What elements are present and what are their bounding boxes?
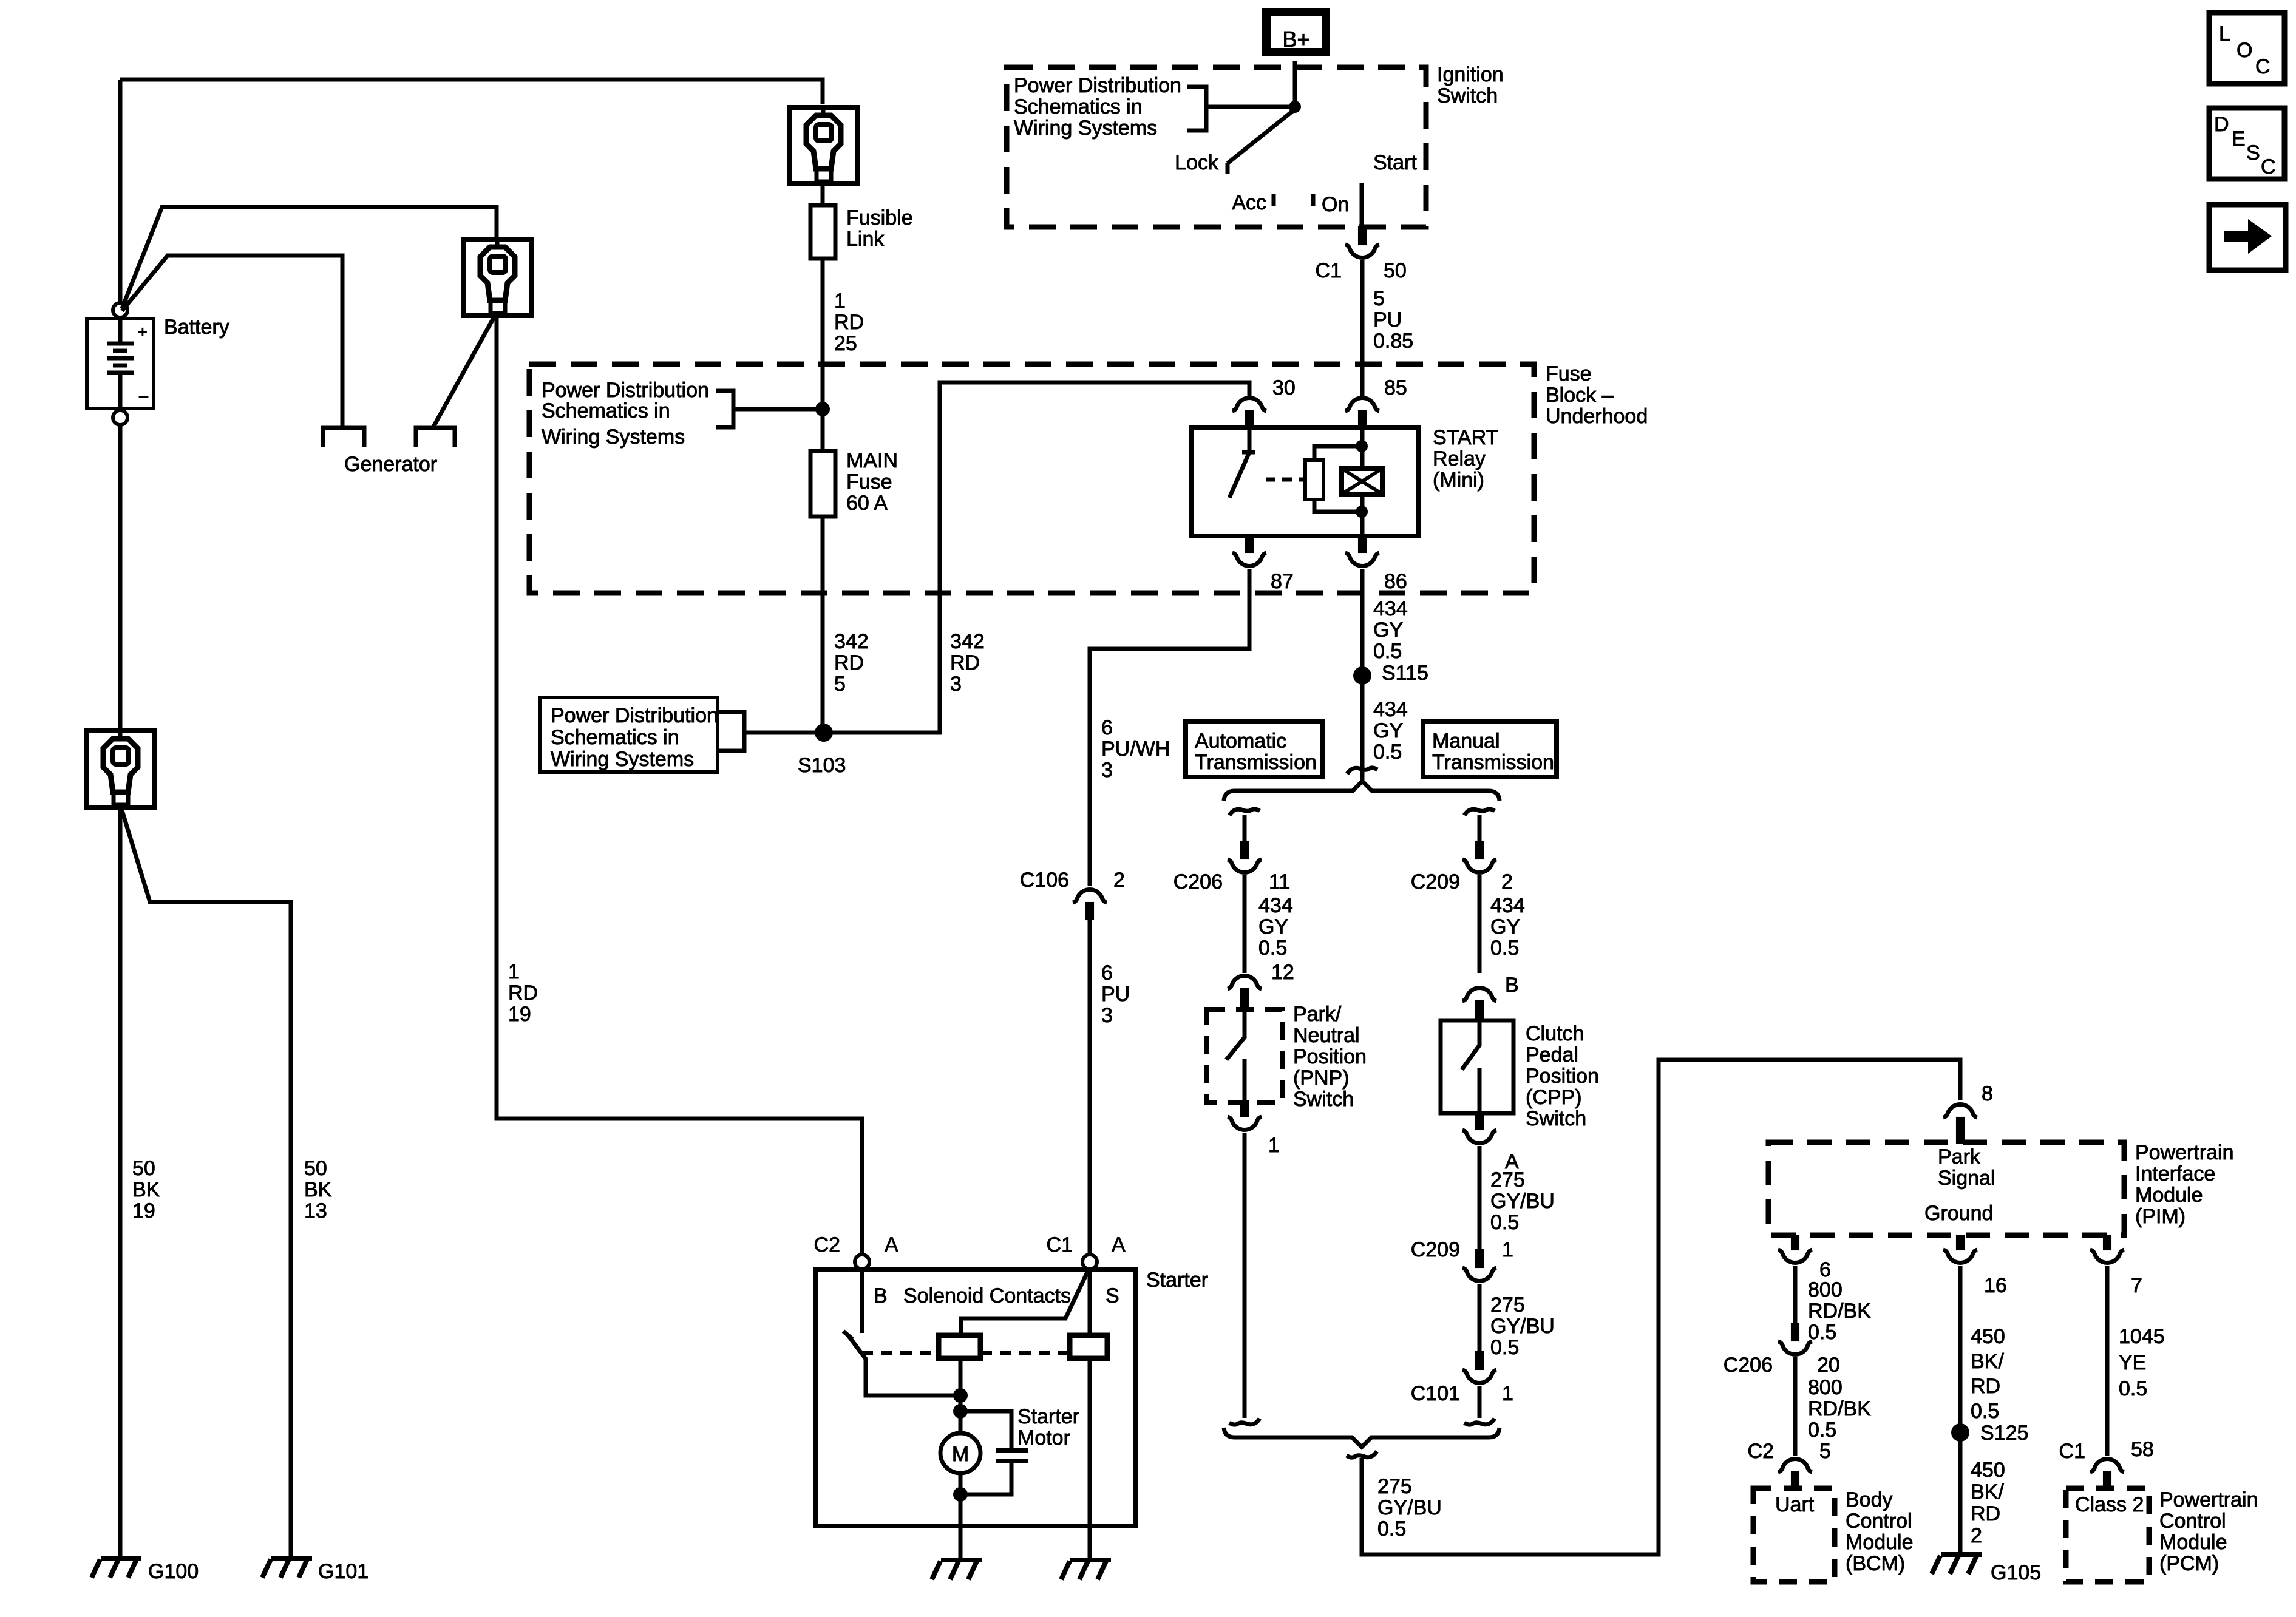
svg-text:0.5: 0.5 <box>1971 1400 1999 1423</box>
svg-text:0.5: 0.5 <box>1373 640 1402 663</box>
svg-text:Transmission: Transmission <box>1432 751 1554 774</box>
svg-text:Switch: Switch <box>1293 1088 1354 1111</box>
reference box Automatic Transmission <box>1186 722 1323 777</box>
ground starter motor <box>932 1560 982 1579</box>
svg-text:S125: S125 <box>1980 1422 2028 1445</box>
svg-text:(PCM): (PCM) <box>2159 1552 2219 1575</box>
svg-text:12: 12 <box>1271 961 1294 984</box>
svg-text:GY: GY <box>1373 619 1403 642</box>
svg-text:Battery: Battery <box>164 316 229 339</box>
svg-text:Powertrain: Powertrain <box>2135 1141 2234 1164</box>
wire PIM 7 to PCM (1045 YE 0.5) <box>2105 1266 2110 1456</box>
fuse F1 Fusible Link <box>810 205 835 259</box>
ignition switch blade to Lock <box>1228 109 1295 163</box>
svg-text:Fuse: Fuse <box>846 470 892 493</box>
connector C206 pin 12 (socket) <box>1228 976 1262 989</box>
svg-text:85: 85 <box>1384 376 1407 399</box>
svg-text:50: 50 <box>132 1157 155 1180</box>
svg-text:G100: G100 <box>148 1560 199 1583</box>
svg-text:Interface: Interface <box>2135 1162 2215 1185</box>
connector C206 pin 20 (socket) <box>1778 1341 1812 1354</box>
PNP switch blade <box>1226 1010 1245 1060</box>
PIM pin 16 (pin) <box>1956 1235 1965 1250</box>
junction dot starter node 3 <box>953 1487 968 1502</box>
svg-text:(PIM): (PIM) <box>2135 1205 2186 1228</box>
svg-text:3: 3 <box>950 673 962 696</box>
svg-text:19: 19 <box>508 1003 531 1026</box>
PNP switch lower contact <box>1243 1059 1247 1100</box>
svg-text:Wiring Systems: Wiring Systems <box>1014 117 1157 140</box>
wire contact block to motor <box>959 1358 963 1433</box>
svg-text:5: 5 <box>1373 287 1385 310</box>
splice S115 <box>1353 666 1371 685</box>
svg-text:Lock: Lock <box>1175 151 1219 174</box>
generator left terminal <box>323 428 364 447</box>
BCM dashed box <box>1753 1488 1835 1582</box>
svg-text:–: – <box>139 387 148 405</box>
wire S103 to START relay pin 30 (342 RD 3) <box>832 382 1249 733</box>
svg-text:Block –: Block – <box>1546 384 1614 407</box>
svg-text:A: A <box>1112 1233 1126 1256</box>
ignition Start contact wire <box>1360 183 1364 226</box>
connector C206 pin 11 (socket) <box>1228 859 1262 872</box>
svg-text:C101: C101 <box>1411 1382 1460 1405</box>
svg-text:GY: GY <box>1258 915 1288 938</box>
svg-text:Starter: Starter <box>1146 1269 1208 1292</box>
connector C1 ignition pin 50 (socket) <box>1345 245 1379 257</box>
relay resistor top link <box>1314 446 1362 460</box>
svg-text:5: 5 <box>1819 1440 1831 1463</box>
svg-text:0.5: 0.5 <box>1258 937 1287 960</box>
svg-text:GY/BU: GY/BU <box>1490 1190 1555 1213</box>
wire C101-1 to merge brace <box>1478 1386 1482 1418</box>
wire ring terminal to G100 (50 BK 19) <box>118 807 123 1557</box>
fuse block underhood dashed box <box>529 364 1534 593</box>
svg-text:1: 1 <box>1502 1238 1513 1261</box>
ground G100 <box>92 1558 141 1578</box>
wire starter motor case ground <box>959 1526 963 1559</box>
relay pin 87 connector (socket) <box>1232 553 1266 566</box>
PNP switch dashed box <box>1207 1009 1282 1102</box>
junction dot relay coil top <box>1356 440 1368 452</box>
svg-text:Ignition: Ignition <box>1437 63 1504 86</box>
svg-text:Module: Module <box>1846 1531 1914 1554</box>
svg-text:C206: C206 <box>1173 870 1223 893</box>
svg-text:1: 1 <box>834 290 846 313</box>
svg-text:1: 1 <box>508 960 520 983</box>
wire PIM 16 to S125 (450 BK/RD 0.5) <box>1958 1266 1963 1432</box>
svg-text:Switch: Switch <box>1526 1107 1586 1130</box>
ring terminal generator feed <box>463 239 532 316</box>
svg-text:60 A: 60 A <box>846 492 888 515</box>
svg-text:0.5: 0.5 <box>1377 1517 1406 1541</box>
svg-text:1: 1 <box>1502 1382 1513 1405</box>
svg-text:Control: Control <box>2159 1510 2226 1533</box>
PIM pin 7 (pin) <box>2103 1235 2111 1250</box>
svg-text:C2: C2 <box>814 1233 840 1256</box>
PIM pin 7 (socket) <box>2090 1250 2124 1263</box>
svg-text:C206: C206 <box>1724 1354 1773 1377</box>
starter capacitor bottom lead <box>960 1461 1011 1494</box>
svg-text:2: 2 <box>1971 1524 1982 1547</box>
svg-text:Uart: Uart <box>1775 1493 1815 1516</box>
connector C106 pin 2 (pin) <box>1085 902 1094 920</box>
svg-text:Manual: Manual <box>1432 730 1500 753</box>
svg-text:275: 275 <box>1377 1475 1412 1498</box>
svg-text:(BCM): (BCM) <box>1846 1552 1905 1575</box>
connector C106 pin 2 (socket) <box>1073 890 1107 903</box>
svg-text:25: 25 <box>834 332 857 355</box>
connector C209 pin 2 (socket) <box>1462 859 1496 872</box>
ring terminal fusible link feed <box>789 107 858 184</box>
connector C209 pin B (socket) <box>1462 988 1496 1001</box>
starter terminal C1 A <box>1082 1255 1097 1269</box>
svg-text:Wiring Systems: Wiring Systems <box>551 748 694 771</box>
battery positive terminal <box>113 303 127 317</box>
svg-text:Automatic: Automatic <box>1195 730 1286 753</box>
svg-text:8: 8 <box>1982 1082 1993 1105</box>
wire CPP A to C209-1 (275 GY/BU 0.5) <box>1478 1146 1482 1249</box>
wire ring terminal to generator right terminal <box>433 317 494 427</box>
power feed B+ box <box>1266 12 1326 52</box>
wire PNP pin 1 to merge brace <box>1243 1133 1247 1418</box>
tick On position <box>1311 194 1316 206</box>
ground G101 <box>262 1558 312 1578</box>
connector C209 pin 2 (pin) <box>1475 841 1484 859</box>
CPP switch blade <box>1462 1022 1479 1070</box>
wire to C206 pin 11 <box>1243 815 1247 841</box>
CPP switch lower contact <box>1478 1068 1482 1113</box>
svg-text:0.85: 0.85 <box>1373 330 1413 353</box>
solenoid actuator dashed line right <box>980 1351 1070 1355</box>
svg-text:B+: B+ <box>1282 27 1309 52</box>
svg-text:BK: BK <box>304 1178 332 1201</box>
svg-text:800: 800 <box>1808 1278 1843 1301</box>
wire battery positive to generator-feed bus <box>122 207 497 308</box>
connector C209 pin B (pin) <box>1475 1000 1484 1022</box>
svg-text:Acc: Acc <box>1232 191 1266 214</box>
svg-text:Start: Start <box>1373 151 1417 174</box>
connector C206 pin 11 (pin) <box>1240 841 1249 859</box>
svg-text:G105: G105 <box>1991 1561 2041 1584</box>
wire motor to ground node <box>959 1473 963 1526</box>
reference box Power Distribution (left) <box>540 697 718 772</box>
svg-text:0.5: 0.5 <box>1808 1321 1836 1344</box>
wire top bus to fusible link <box>120 80 823 104</box>
bracket from reference box to S103 <box>718 712 816 751</box>
option curl automatic branch <box>1229 809 1260 815</box>
svg-text:0.5: 0.5 <box>1490 1336 1519 1359</box>
PIM dashed box <box>1768 1142 2124 1235</box>
svg-text:Link: Link <box>846 228 885 251</box>
svg-text:Ground: Ground <box>1924 1202 1993 1225</box>
option curl C101 to brace <box>1464 1419 1495 1425</box>
svg-text:Position: Position <box>1526 1065 1599 1088</box>
PIM pin 6 (pin) <box>1791 1235 1799 1250</box>
svg-text:D: D <box>2214 113 2229 136</box>
fuse F2 MAIN Fuse 60A <box>810 451 835 517</box>
ground G105 <box>1932 1554 1982 1574</box>
wire merge brace to PIM park signal <box>1362 1060 1960 1554</box>
connector C206 pin 12 (pin) <box>1240 988 1249 1010</box>
solenoid actuator dashed line left <box>861 1351 939 1355</box>
PCM dashed box <box>2066 1488 2149 1582</box>
svg-text:342: 342 <box>834 630 869 653</box>
svg-text:S115: S115 <box>1382 662 1428 685</box>
svg-text:START: START <box>1433 426 1498 449</box>
svg-text:11: 11 <box>1269 870 1290 893</box>
option merge brace <box>1224 1428 1500 1447</box>
svg-text:C1: C1 <box>2059 1440 2085 1463</box>
connector PIM pin 8 (pin) <box>1956 1117 1965 1144</box>
reference box Manual Transmission <box>1423 722 1557 777</box>
svg-text:434: 434 <box>1373 698 1408 721</box>
svg-text:Solenoid Contacts: Solenoid Contacts <box>903 1284 1071 1307</box>
wire C106 to starter solenoid S (6 PU 3) <box>1088 920 1092 1255</box>
svg-text:3: 3 <box>1101 759 1113 782</box>
wire battery positive to generator left terminal <box>122 256 342 426</box>
svg-text:PU: PU <box>1373 308 1402 331</box>
ground starter solenoid <box>1061 1560 1111 1579</box>
svg-text:L: L <box>2219 22 2230 46</box>
svg-text:Wiring Systems: Wiring Systems <box>542 425 685 449</box>
svg-text:(Mini): (Mini) <box>1433 469 1484 492</box>
svg-text:C106: C106 <box>1020 869 1069 892</box>
wire relay 86 to S115 (434 GY 0.5) <box>1360 569 1365 780</box>
PNP switch pin 1 (pin) <box>1240 1100 1249 1117</box>
junction dot ignition B+ node <box>1289 101 1301 113</box>
svg-text:Switch: Switch <box>1437 84 1498 107</box>
wire starter solenoid ground <box>1088 1526 1092 1559</box>
svg-text:Control: Control <box>1846 1510 1912 1533</box>
svg-text:0.5: 0.5 <box>2119 1377 2147 1400</box>
svg-text:C2: C2 <box>1748 1440 1774 1463</box>
svg-text:Relay: Relay <box>1433 447 1486 470</box>
wire battery positive to top bus <box>118 80 123 303</box>
svg-text:BK: BK <box>132 1178 160 1201</box>
relay resistor bottom link <box>1314 500 1362 512</box>
svg-text:Module: Module <box>2159 1531 2227 1554</box>
svg-text:50: 50 <box>1384 259 1407 282</box>
junction dot relay coil bottom <box>1356 506 1368 518</box>
svg-text:RD: RD <box>1971 1502 2000 1525</box>
svg-text:2: 2 <box>1501 870 1513 893</box>
svg-text:7: 7 <box>2131 1274 2142 1297</box>
svg-text:Schematics in: Schematics in <box>1014 95 1143 118</box>
svg-text:Position: Position <box>1293 1045 1367 1068</box>
connector C1 ignition pin 50 (pin) <box>1358 226 1367 245</box>
forward arrow <box>2224 219 2272 254</box>
svg-text:Schematics in: Schematics in <box>551 726 679 749</box>
svg-text:A: A <box>885 1233 898 1256</box>
svg-text:0.5: 0.5 <box>1490 1211 1519 1234</box>
wire ignition 50 to relay pin 85 (5 PU 0.85) <box>1360 260 1365 396</box>
svg-text:G101: G101 <box>318 1560 369 1583</box>
svg-text:434: 434 <box>1258 894 1293 917</box>
starter S contact wire <box>1088 1269 1092 1335</box>
svg-text:19: 19 <box>132 1199 155 1222</box>
ignition switch dashed box <box>1007 67 1426 227</box>
wire C206-20 to BCM (800 RD/BK 0.5) <box>1793 1357 1798 1456</box>
svg-text:6: 6 <box>1101 716 1113 739</box>
svg-text:6: 6 <box>1101 961 1113 985</box>
option curl below merge brace <box>1347 1451 1377 1457</box>
svg-text:GY/BU: GY/BU <box>1490 1315 1555 1338</box>
starter box <box>816 1269 1136 1526</box>
svg-text:Neutral: Neutral <box>1293 1024 1360 1047</box>
svg-text:58: 58 <box>2131 1438 2154 1461</box>
svg-text:800: 800 <box>1808 1376 1843 1399</box>
svg-text:450: 450 <box>1971 1459 2005 1482</box>
svg-text:GY/BU: GY/BU <box>1377 1496 1442 1519</box>
relay coil resistor <box>1305 460 1323 500</box>
svg-text:On: On <box>1322 193 1349 216</box>
wire C209-1 to C101-1 (275 GY/BU 0.5) <box>1478 1284 1482 1351</box>
svg-text:M: M <box>952 1443 969 1466</box>
svg-text:434: 434 <box>1373 597 1408 620</box>
wire generator-feed ring terminal to starter B (1 RD 19) <box>497 317 862 1255</box>
starter capacitor plates <box>996 1448 1028 1453</box>
ring terminal battery negative <box>86 731 155 807</box>
junction dot power distribution tap <box>815 402 830 416</box>
splice S125 <box>1951 1423 1969 1442</box>
relay actuator dashed link <box>1266 478 1305 482</box>
svg-text:Body: Body <box>1846 1488 1893 1511</box>
battery B1 <box>87 319 154 408</box>
svg-text:16: 16 <box>1984 1274 2007 1297</box>
relay switch <box>1229 429 1255 498</box>
svg-text:GY: GY <box>1373 719 1403 742</box>
svg-text:Power Distribution: Power Distribution <box>551 704 718 727</box>
svg-text:5: 5 <box>834 673 846 696</box>
svg-text:Clutch: Clutch <box>1526 1022 1584 1045</box>
svg-text:Fuse: Fuse <box>1546 362 1592 385</box>
starter B switch blade <box>848 1335 866 1360</box>
svg-text:Generator: Generator <box>344 453 437 476</box>
solenoid contact block 2 <box>1070 1335 1107 1358</box>
connector C101 pin 1 (pin) <box>1475 1351 1484 1370</box>
svg-text:Transmission: Transmission <box>1195 751 1317 774</box>
DESC reference box <box>2209 108 2284 179</box>
svg-text:Power Distribution: Power Distribution <box>1014 74 1181 97</box>
svg-text:O: O <box>2237 39 2252 62</box>
svg-text:2: 2 <box>1113 869 1125 892</box>
connector C209 pin 1 (pin) <box>1475 1249 1484 1268</box>
relay pin 30 connector (pin) <box>1245 410 1254 429</box>
wire C206-11 to C206-12 (434 GY 0.5) <box>1243 875 1247 973</box>
svg-text:B: B <box>874 1284 888 1307</box>
wire relay 87 to C106 (6 PU/WH 3) <box>1090 569 1249 886</box>
svg-text:C1: C1 <box>1047 1233 1073 1256</box>
connector BCM C2-5 (socket) <box>1778 1459 1812 1472</box>
svg-text:450: 450 <box>1971 1325 2005 1348</box>
svg-text:RD: RD <box>834 311 864 334</box>
svg-text:C: C <box>2255 55 2271 78</box>
relay pin 87 connector (pin) <box>1245 536 1254 553</box>
junction dot starter node 1 <box>953 1388 968 1403</box>
connector C101 pin 1 (socket) <box>1462 1370 1496 1383</box>
svg-text:RD: RD <box>834 651 864 674</box>
svg-text:PU/WH: PU/WH <box>1101 737 1170 761</box>
battery negative terminal <box>113 410 127 425</box>
starter capacitor top lead <box>960 1411 1011 1450</box>
svg-text:30: 30 <box>1272 376 1296 399</box>
option brace split <box>1224 781 1500 801</box>
svg-text:S: S <box>2246 141 2260 164</box>
connector C209 pin 1 (socket) <box>1462 1268 1496 1281</box>
svg-text:Power Distribution: Power Distribution <box>542 379 709 402</box>
svg-text:RD/BK: RD/BK <box>1808 1300 1871 1323</box>
svg-text:Motor: Motor <box>1017 1426 1070 1449</box>
svg-text:Park/: Park/ <box>1293 1003 1342 1026</box>
svg-text:13: 13 <box>304 1199 327 1222</box>
wire battery negative to ring terminal <box>118 425 123 731</box>
solenoid contact block 1 <box>939 1335 980 1358</box>
svg-text:Powertrain: Powertrain <box>2159 1488 2258 1511</box>
CPP switch pin A (pin) <box>1475 1113 1484 1130</box>
connector PCM C1-58 (socket) <box>2090 1459 2124 1472</box>
relay pin 85 connector (socket) <box>1345 398 1379 411</box>
svg-text:(PNP): (PNP) <box>1293 1066 1350 1090</box>
tick Lock position <box>1226 163 1230 174</box>
svg-text:342: 342 <box>950 630 985 653</box>
svg-text:B: B <box>1505 974 1519 997</box>
svg-text:YE: YE <box>2119 1351 2146 1374</box>
svg-text:3: 3 <box>1101 1004 1113 1027</box>
START relay box <box>1192 427 1419 536</box>
wire ring terminal to fusible link <box>821 184 825 206</box>
connector pin 1 (socket) <box>1228 1117 1262 1130</box>
svg-text:275: 275 <box>1490 1168 1525 1192</box>
svg-text:Pedal: Pedal <box>1526 1043 1578 1066</box>
wire fusible link to S103 <box>821 259 825 733</box>
svg-text:C209: C209 <box>1411 870 1460 893</box>
wire to C209 pin 2 <box>1478 815 1482 841</box>
svg-text:+: + <box>138 323 148 341</box>
svg-text:RD/BK: RD/BK <box>1808 1397 1871 1420</box>
svg-text:Fusible: Fusible <box>846 206 913 229</box>
svg-text:Schematics in: Schematics in <box>542 399 670 422</box>
svg-text:MAIN: MAIN <box>846 449 898 472</box>
relay pin 86 connector (socket) <box>1345 553 1379 566</box>
option curl manual branch <box>1464 809 1495 815</box>
svg-text:C1: C1 <box>1316 259 1342 282</box>
wire PIM 6 to C206-20 (800 RD/BK 0.5) <box>1793 1266 1798 1323</box>
starter B contact wire <box>860 1269 864 1333</box>
svg-text:C: C <box>2261 155 2276 178</box>
connector PCM C1-58 (pin) <box>2103 1471 2111 1490</box>
CPP switch box <box>1441 1020 1513 1113</box>
svg-text:RD: RD <box>1971 1375 2000 1398</box>
svg-text:20: 20 <box>1817 1354 1840 1377</box>
svg-text:Class 2: Class 2 <box>2075 1493 2144 1516</box>
svg-text:Signal: Signal <box>1938 1167 1995 1190</box>
svg-text:BK/: BK/ <box>1971 1480 2004 1503</box>
wire B+ into ignition switch <box>1293 61 1297 107</box>
svg-text:S: S <box>1106 1284 1119 1307</box>
connector pin A (socket) <box>1462 1130 1496 1143</box>
wire ring terminal branch to G101 (50 BK 13) <box>121 808 291 1557</box>
wire C209-2 to C209-B (434 GY 0.5) <box>1478 875 1482 973</box>
svg-text:Module: Module <box>2135 1184 2203 1207</box>
connector PIM pin 8 (socket) <box>1943 1105 1977 1117</box>
svg-text:50: 50 <box>304 1157 327 1180</box>
junction dot starter node 2 <box>953 1404 968 1419</box>
wire B blade to motor node <box>866 1358 960 1395</box>
starter terminal C2 A <box>855 1255 869 1269</box>
wire S125 to G105 (450 BK/RD 2) <box>1958 1432 1963 1553</box>
svg-text:RD: RD <box>508 981 538 1005</box>
